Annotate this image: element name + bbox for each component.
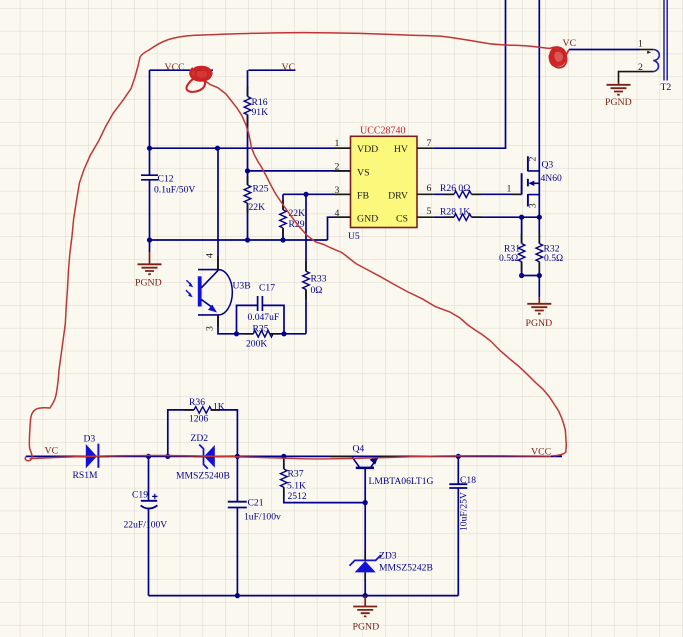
svg-text:R35: R35 [253, 324, 269, 335]
pin 5 [417, 206, 434, 217]
svg-text:2512: 2512 [288, 491, 307, 502]
power port VCC (top left) [150, 62, 214, 73]
junction node rail/C21 [235, 593, 240, 598]
pin 2 [334, 162, 351, 173]
svg-text:ZD2: ZD2 [191, 433, 209, 444]
svg-text:ZD3: ZD3 [379, 551, 397, 562]
svg-text:R28 1K: R28 1K [440, 207, 470, 218]
junction node R37 [281, 454, 286, 459]
svg-text:1: 1 [638, 39, 643, 50]
svg-text:5: 5 [427, 206, 432, 217]
resistor R29 [280, 194, 305, 240]
wire drain line from top [538, 0, 540, 244]
svg-text:22uF/100V: 22uF/100V [124, 520, 168, 531]
junction node VS/R16/R25 [245, 168, 250, 173]
svg-text:0.5Ω: 0.5Ω [499, 253, 518, 264]
resistor R31 [499, 217, 525, 275]
svg-text:VC: VC [282, 62, 296, 73]
svg-text:U5: U5 [348, 231, 360, 242]
svg-text:0.5Ω: 0.5Ω [544, 253, 563, 264]
pin 3 [334, 185, 351, 196]
svg-text:3: 3 [527, 203, 538, 208]
wire VCC vertical to C12 [149, 70, 151, 175]
red annotation diagonal [204, 80, 566, 456]
pin 4 [334, 208, 351, 219]
junction node rail/C12 [147, 237, 152, 242]
svg-text:R36: R36 [189, 397, 205, 408]
junction node CS/R32 [537, 215, 542, 220]
svg-text:4N60: 4N60 [541, 173, 563, 184]
svg-text:MMSZ5242B: MMSZ5242B [379, 563, 433, 574]
svg-text:91K: 91K [252, 107, 269, 118]
junction node R36 left [165, 454, 170, 459]
junction node bottom R32 [537, 273, 542, 278]
svg-text:22K: 22K [289, 208, 306, 219]
red annotation wire overlay [30, 455, 551, 458]
svg-text:T2: T2 [661, 82, 672, 93]
resistor R33 [303, 194, 327, 333]
svg-text:CS: CS [396, 214, 408, 225]
pin 7 [417, 138, 434, 149]
wire U3B collector to VDD rail [217, 148, 219, 269]
power port VC (top left) [249, 62, 296, 73]
pin 1 [334, 138, 351, 149]
op-amp U3B optocoupler phototransistor [186, 253, 251, 331]
svg-text:5.1K: 5.1K [287, 481, 306, 492]
resistor R28 [434, 207, 540, 221]
svg-text:GND: GND [357, 214, 378, 225]
junction node rail/ZD3 [363, 593, 368, 598]
resistor R36 [168, 397, 238, 456]
svg-text:VDD: VDD [357, 144, 378, 155]
transistor Q4 LMBTA06LT1G [352, 444, 433, 561]
svg-text:R37: R37 [288, 468, 304, 479]
resistor R37 [280, 456, 365, 502]
wire R31/R32 bottom [522, 275, 540, 277]
svg-text:UCC28740: UCC28740 [360, 126, 406, 137]
op-amp U5 UCC28740 controller [348, 126, 417, 243]
ground PGND (under T2) [605, 83, 632, 109]
zener ZD3 MMSZ5242B [350, 551, 433, 596]
resistor R26 [434, 183, 522, 198]
svg-text:PGND: PGND [135, 278, 162, 289]
red annotation scribble at VCC (top left) [186, 67, 211, 92]
capacitor C21 [228, 456, 281, 595]
wire GND pin to ground rail [150, 217, 351, 240]
wire VS [248, 170, 351, 172]
svg-text:4: 4 [205, 253, 216, 258]
svg-text:3: 3 [335, 185, 340, 196]
capacitor C17 [237, 283, 285, 334]
wire U3B emitter down and right [218, 315, 253, 334]
svg-text:VC: VC [563, 38, 577, 49]
junction node CS/R31 [519, 215, 524, 220]
svg-text:Q4: Q4 [353, 444, 365, 455]
svg-text:R26 0Ω: R26 0Ω [440, 183, 470, 194]
diode D3 RS1M [73, 434, 99, 481]
ground PGND (bottom) [353, 596, 380, 633]
svg-text:RS1M: RS1M [73, 470, 99, 481]
svg-text:2: 2 [638, 62, 643, 73]
svg-text:3: 3 [205, 326, 216, 331]
svg-text:U3B: U3B [233, 281, 251, 292]
svg-text:1: 1 [507, 183, 512, 194]
svg-text:DRV: DRV [388, 191, 408, 202]
svg-text:R33: R33 [311, 274, 327, 285]
svg-text:C17: C17 [259, 283, 275, 294]
svg-text:10uF/25V: 10uF/25V [459, 492, 470, 531]
svg-text:C21: C21 [248, 498, 264, 509]
svg-text:D3: D3 [84, 434, 96, 445]
svg-text:MMSZ5240B: MMSZ5240B [176, 470, 230, 481]
ground PGND (under Q3) [526, 297, 553, 329]
wire HV to top [434, 0, 506, 148]
svg-text:FB: FB [357, 191, 369, 202]
junction node rail/R25 [245, 237, 250, 242]
svg-text:R25: R25 [253, 184, 269, 195]
svg-text:1K: 1K [213, 402, 225, 413]
svg-text:1206: 1206 [189, 413, 208, 424]
resistor R16 [244, 70, 268, 185]
svg-text:VCC: VCC [165, 62, 185, 73]
junction node VDD/VCC [147, 146, 152, 151]
svg-text:PGND: PGND [526, 318, 553, 329]
svg-text:7: 7 [427, 138, 432, 149]
junction node rail/R29 [280, 237, 285, 242]
svg-text:6: 6 [427, 183, 432, 194]
svg-text:C18: C18 [460, 475, 476, 486]
pin 6 [417, 183, 434, 194]
capacitor C19 [124, 456, 168, 595]
ground PGND (left) [135, 252, 162, 289]
capacitor C12 [141, 174, 195, 253]
svg-text:VC: VC [45, 446, 59, 457]
junction node VDD/U3B [215, 146, 220, 151]
capacitor C18 [449, 456, 476, 595]
svg-text:1uF/100v: 1uF/100v [244, 511, 281, 522]
wire bottom main rail [26, 455, 562, 457]
pin stubs (black) [76, 87, 540, 582]
svg-text:1: 1 [335, 138, 340, 149]
svg-text:4: 4 [335, 208, 340, 219]
junction node ZD2/C21 [235, 454, 240, 459]
junction node FB/R33 [303, 192, 308, 197]
svg-text:0Ω: 0Ω [311, 285, 323, 296]
power port VC (bottom left) [45, 446, 59, 457]
svg-text:2: 2 [335, 162, 340, 173]
power port VC (top right) [563, 38, 641, 50]
red annotation scribble at VC (top right) [549, 47, 569, 68]
svg-text:C19: C19 [132, 490, 148, 501]
transformer T2 [619, 0, 672, 93]
junction node C19 [146, 454, 151, 459]
svg-text:0.047uF: 0.047uF [248, 312, 280, 323]
wire VDD rail [150, 147, 351, 149]
svg-text:VS: VS [357, 167, 370, 178]
svg-text:Q3: Q3 [542, 160, 554, 171]
power port VCC (bottom right) [531, 446, 551, 457]
resistor R25 [244, 184, 268, 241]
svg-text:LMBTA06LT1G: LMBTA06LT1G [369, 476, 434, 487]
transistor Q3 4N60 [522, 156, 562, 208]
svg-text:22K: 22K [249, 202, 266, 213]
red annotation big loop [25, 33, 550, 461]
junction node C18 top [456, 454, 461, 459]
junction node Q4 base/R37 [363, 500, 368, 505]
zener ZD2 MMSZ5240B [176, 433, 230, 481]
svg-text:0.1uF/50V: 0.1uF/50V [154, 185, 195, 196]
junction node C17 left [234, 331, 239, 336]
svg-text:HV: HV [394, 144, 408, 155]
svg-text:PGND: PGND [353, 622, 380, 633]
junction node C17 right [281, 331, 286, 336]
svg-text:2: 2 [527, 157, 538, 162]
resistor R35 [246, 324, 306, 350]
svg-text:C12: C12 [158, 174, 174, 185]
svg-text:PGND: PGND [605, 97, 632, 108]
junction node bottom R31 [519, 273, 524, 278]
resistor R32 [536, 244, 563, 298]
wire FB [283, 193, 351, 195]
svg-text:200K: 200K [246, 339, 267, 350]
wire bottom ground rail [149, 595, 459, 597]
